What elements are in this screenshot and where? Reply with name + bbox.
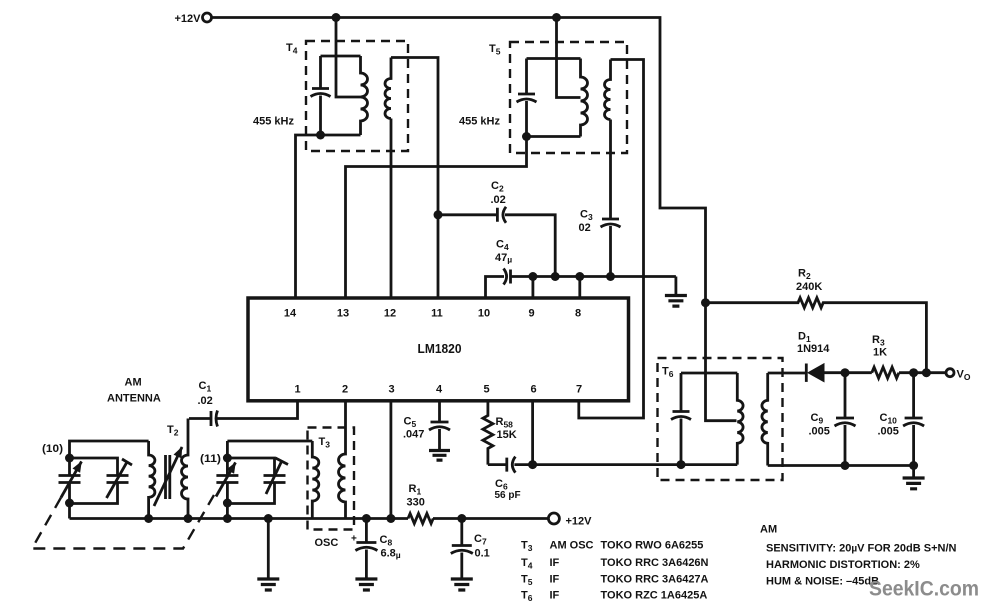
capacitor T5 tank [517, 59, 537, 137]
inductor T4 primary winding [361, 56, 368, 135]
wire +12V rail to T6 tap [212, 18, 737, 421]
junction R3 / C10 [909, 368, 918, 377]
junction C9 / ground row [841, 461, 850, 470]
inductor T3 secondary winding and wire to pin 2 [339, 401, 346, 519]
wire T5 primary top [527, 57, 581, 60]
svg-text:TOKO RZC 1A6425A: TOKO RZC 1A6425A [601, 590, 708, 602]
junction (11) inner top [223, 454, 232, 463]
transformer T5 dashed box [510, 42, 627, 153]
svg-text:AM: AM [760, 524, 777, 536]
svg-text:15K: 15K [497, 429, 517, 441]
wire T5 secondary top to pin 7 [579, 60, 644, 419]
svg-text:56 pF: 56 pF [495, 490, 521, 501]
svg-text:11: 11 [431, 308, 443, 320]
pin labels bottom row [294, 384, 582, 396]
svg-text:IF: IF [550, 590, 560, 602]
capacitor C7 [451, 519, 490, 580]
svg-text:+12V: +12V [566, 516, 593, 528]
svg-text:7: 7 [576, 384, 582, 396]
svg-text:14: 14 [284, 308, 297, 320]
wire +12V feed to T5 tap [557, 18, 581, 98]
svg-text:+12V: +12V [175, 13, 202, 25]
node (11) tank outer loop [227, 441, 312, 519]
capacitor C4 [495, 239, 676, 285]
svg-text:.02: .02 [198, 395, 213, 407]
wire pin 10 to C4 [486, 277, 505, 299]
junction (10) inner bottom [65, 499, 74, 508]
capacitor C10 [878, 373, 925, 466]
svg-text:8: 8 [575, 308, 581, 320]
svg-text:47µ: 47µ [495, 252, 512, 265]
inductor T6 secondary winding [762, 373, 768, 466]
svg-text:(11): (11) [200, 453, 221, 465]
wire +12V feed to T4 tap [336, 18, 361, 98]
svg-text:1K: 1K [873, 347, 887, 359]
svg-text:1: 1 [294, 384, 300, 396]
svg-text:.005: .005 [878, 426, 899, 438]
wire detector ground row [768, 464, 914, 467]
svg-text:6.8µ: 6.8µ [381, 548, 401, 561]
capacitor T6 tank [671, 373, 691, 465]
diode D1 1N914 [797, 331, 830, 382]
svg-text:330: 330 [407, 497, 425, 509]
terminal +12V (bottom) [548, 513, 592, 528]
resistor R58 [483, 401, 517, 465]
junction D1 / C9 [841, 368, 850, 377]
capacitor C9 [809, 373, 856, 466]
junction T4 tank bottom [316, 131, 325, 140]
junction T5 tank bottom [522, 132, 531, 141]
svg-text:.02: .02 [491, 194, 506, 206]
transformer T4 dashed box [306, 41, 408, 151]
capacitor T4 tank [311, 56, 331, 135]
wire T4 secondary top to pin 11 [391, 58, 438, 299]
svg-text:3: 3 [388, 384, 394, 396]
junction T2 secondary / bus [184, 514, 193, 523]
svg-text:ANTENNA: ANTENNA [107, 393, 161, 405]
junction C2 / pin 11 riser [434, 210, 443, 219]
svg-text:6: 6 [530, 384, 536, 396]
svg-text:SENSITIVITY: 20µV FOR 20dB S+N: SENSITIVITY: 20µV FOR 20dB S+N/N [766, 543, 957, 555]
svg-text:HARMONIC DISTORTION: 2%: HARMONIC DISTORTION: 2% [766, 559, 920, 571]
svg-text:(10): (10) [42, 443, 63, 455]
junction R2 tap on +12V feed [701, 298, 710, 307]
wire T4 secondary bottom to pin 12 [390, 119, 393, 299]
svg-text:.047: .047 [403, 429, 424, 441]
inductor T6 primary winding [737, 373, 743, 465]
svg-text:455 kHz: 455 kHz [253, 116, 294, 128]
svg-text:02: 02 [579, 222, 591, 234]
terminal +12V (top left) [175, 13, 212, 25]
capacitor C2 [438, 180, 555, 277]
resistor R3 [872, 334, 899, 378]
wire T5 tank bottom [527, 135, 581, 138]
label parts table row T3 [521, 540, 703, 554]
svg-text:.005: .005 [809, 426, 830, 438]
wire pin 8 stub [578, 277, 581, 299]
inductor T5 secondary winding [605, 60, 611, 120]
junction C3 / AGC bus [606, 272, 615, 281]
node (11) tank inner loop [227, 458, 274, 504]
resistor R1 [407, 483, 434, 524]
wire T6 primary top [681, 372, 737, 375]
ground (C8) [355, 579, 377, 590]
wire pin 9 stub [532, 277, 535, 299]
terminal VO [946, 369, 971, 383]
svg-text:455 kHz: 455 kHz [459, 116, 500, 128]
svg-text:IF: IF [550, 574, 560, 586]
svg-text:OSC: OSC [315, 537, 339, 549]
label parts table row T5 [521, 574, 709, 588]
variable capacitor (11) outer [216, 463, 238, 497]
variable capacitor (10) inner (trimmer) [107, 459, 133, 498]
svg-text:IF: IF [550, 557, 560, 569]
ground (oscillator bus) [257, 519, 279, 591]
transformer T3 dashed box [308, 428, 355, 530]
junction pin 3 / bus [386, 514, 395, 523]
wire pin 3 to bus [389, 401, 392, 519]
svg-text:0.1: 0.1 [475, 548, 490, 560]
inductor T5 primary winding [581, 59, 588, 137]
junction C8 / bus [362, 514, 371, 523]
node (10) tank inner loop [70, 458, 118, 504]
inductor T4 secondary winding [385, 58, 391, 119]
capacitor C8 [351, 519, 401, 580]
svg-text:TOKO RRC 3A6426N: TOKO RRC 3A6426N [601, 557, 709, 569]
svg-text:9: 9 [528, 308, 534, 320]
junction (10) inner top [65, 454, 74, 463]
junction R2 / output row [922, 368, 931, 377]
wire detector bus (C6 to T6 primary) [514, 463, 737, 466]
svg-text:TOKO RRC 3A6427A: TOKO RRC 3A6427A [601, 574, 709, 586]
junction pin 6 / detector bus [528, 460, 537, 469]
junction pin 9 / AGC bus [528, 272, 537, 281]
svg-text:10: 10 [478, 308, 490, 320]
resistor R2 [706, 268, 927, 373]
junction C2 / AGC bus [551, 272, 560, 281]
junction (11) inner bottom [223, 499, 232, 508]
svg-text:HUM & NOISE: –45dB: HUM & NOISE: –45dB [766, 576, 879, 588]
svg-text:SeekIC.com: SeekIC.com [869, 577, 979, 601]
junction C7 / bus [457, 514, 466, 523]
label parts table row T6 [521, 590, 707, 604]
node (10) tank outer loop [70, 441, 149, 519]
wire T5 tank bottom to pin 13 [346, 137, 527, 299]
svg-text:TOKO RWO 6A6255: TOKO RWO 6A6255 [601, 540, 704, 552]
inductor T2 primary winding [149, 441, 155, 519]
svg-text:AM OSC: AM OSC [550, 540, 594, 552]
svg-text:4: 4 [436, 384, 443, 396]
wire T4 primary top [321, 55, 361, 58]
svg-text:LM1820: LM1820 [418, 341, 462, 356]
T2 tuning arrow [154, 447, 182, 506]
junction T6 tank bottom / detector bus [677, 460, 686, 469]
pin labels top row [284, 308, 581, 320]
op-amp U1 IC LM1820 box [248, 298, 629, 401]
svg-text:12: 12 [384, 308, 396, 320]
svg-text:+: + [351, 534, 357, 545]
svg-text:1N914: 1N914 [797, 343, 830, 355]
gang tuning dashed link [32, 495, 214, 549]
variable capacitor (10) outer [59, 462, 82, 498]
junction rail/T4 feed [332, 13, 341, 22]
ground AGC bus [665, 277, 687, 307]
capacitor C3 [579, 209, 621, 277]
junction rail/T5 feed [552, 13, 561, 22]
label parts table row T4 [521, 557, 709, 571]
wire pin 6 stub [531, 401, 534, 465]
junction ground drop / bus [264, 514, 273, 523]
T2 core bars [166, 455, 170, 499]
wire detector output row [824, 371, 946, 374]
ground (detector) [903, 466, 925, 489]
junction T2 primary / bus [144, 514, 153, 523]
svg-text:13: 13 [337, 308, 349, 320]
svg-text:240K: 240K [796, 281, 822, 293]
ground (C5) [429, 451, 450, 461]
svg-text:2: 2 [342, 384, 348, 396]
inductor T2 secondary winding [182, 419, 188, 519]
wire ground bus (bottom row) [70, 517, 549, 520]
junction pin 8 / AGC bus [575, 272, 584, 281]
wire T6 secondary top to diode [768, 372, 807, 375]
svg-text:5: 5 [483, 384, 489, 396]
label AM ANTENNA [107, 377, 161, 405]
inductor T3 primary winding [312, 441, 319, 519]
junction (11) tank / bus [223, 514, 232, 523]
wire T4 tank bottom to pin 14 [296, 135, 361, 298]
ground (C7) [451, 579, 473, 590]
transformer T6 dashed box [658, 358, 783, 480]
wire T5 secondary bottom to C3 [609, 120, 612, 220]
capacitor C6 [488, 457, 521, 501]
svg-text:AM: AM [125, 377, 142, 389]
capacitor C1 [189, 380, 298, 427]
junction C10 / ground row [909, 461, 918, 470]
capacitor C5 [403, 401, 450, 451]
variable capacitor (11) inner (trimmer) [264, 458, 289, 494]
